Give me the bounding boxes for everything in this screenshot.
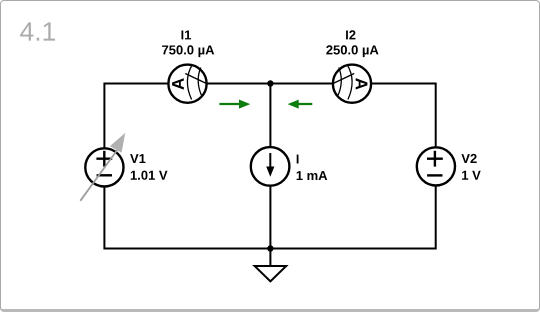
label I — [297, 155, 299, 164]
label V2 — [461, 154, 476, 163]
ammeter I2 — [332, 65, 371, 103]
voltage source V1 — [80, 133, 125, 201]
value 1.01 V — [131, 171, 168, 180]
node junction dot top — [267, 80, 273, 86]
wire middle vertical upper — [269, 84, 271, 147]
wire top-left horizontal — [104, 83, 168, 85]
wire middle vertical lower — [269, 187, 271, 249]
node junction dot bottom — [267, 245, 273, 251]
wire top-right horizontal — [372, 83, 436, 85]
label I2 — [346, 30, 355, 39]
label I1 — [181, 31, 191, 40]
wire left vertical upper — [103, 83, 105, 148]
wire bottom horizontal — [104, 248, 435, 250]
wire right vertical upper — [435, 83, 437, 147]
current arrow for I1 (green, right) — [219, 100, 250, 109]
ammeter I1 — [168, 65, 207, 103]
label V1 — [130, 154, 145, 163]
page number 4.1 — [20, 22, 55, 40]
voltage source V2 — [417, 147, 455, 185]
value 750.0 µA — [162, 45, 214, 57]
variable-source arrow (gray) — [80, 150, 117, 201]
ground — [255, 266, 287, 281]
value 1 mA — [297, 171, 328, 180]
wire left vertical lower — [103, 187, 105, 249]
current arrow for I2 (green, left) — [288, 100, 313, 109]
wire right vertical lower — [435, 187, 437, 250]
current source I — [251, 147, 290, 186]
value 250.0 µA — [326, 45, 378, 57]
value 1 V — [462, 171, 481, 180]
wire top-middle horizontal — [207, 83, 332, 85]
wire ground stub — [269, 249, 271, 266]
